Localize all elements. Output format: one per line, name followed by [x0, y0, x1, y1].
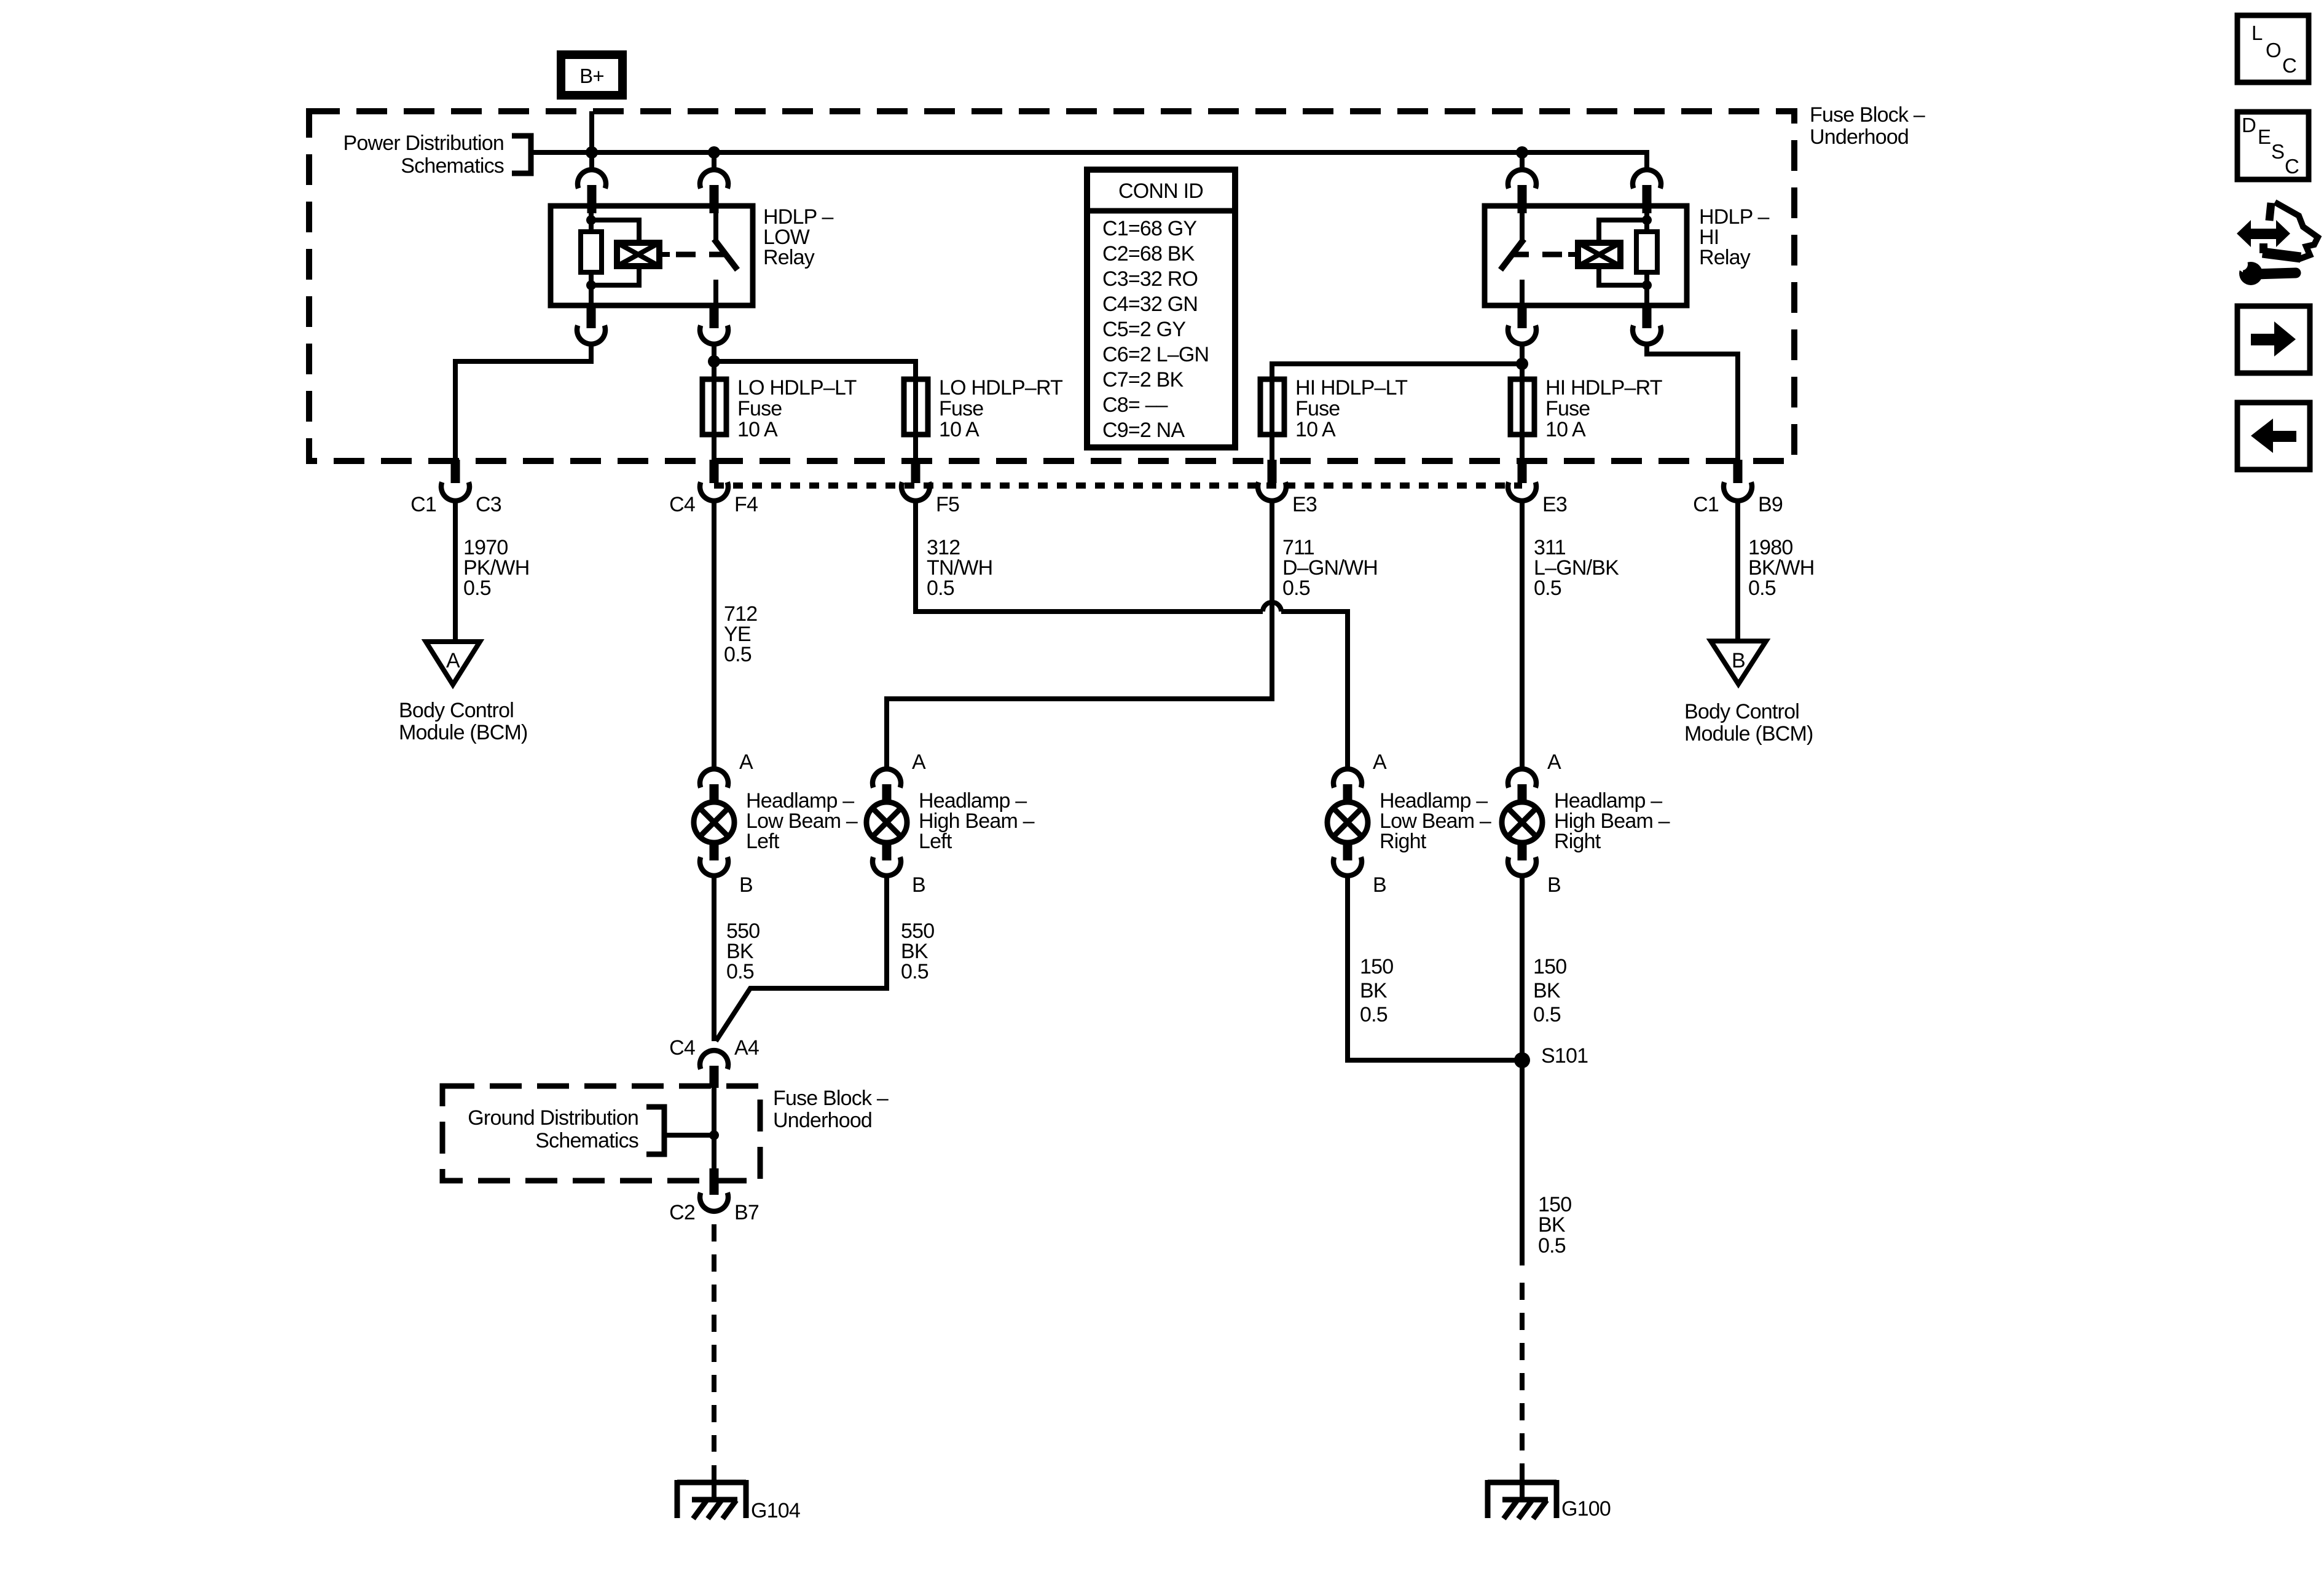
lamp headlamp high beam right — [1502, 789, 1670, 853]
node low switch branch — [708, 355, 720, 368]
svg-text:Underhood: Underhood — [773, 1109, 872, 1132]
svg-text:10 A: 10 A — [939, 418, 979, 441]
svg-text:HI HDLP–RT: HI HDLP–RT — [1545, 376, 1662, 399]
svg-text:150: 150 — [1533, 955, 1566, 978]
connector pin A headlamp low beam right — [1333, 769, 1362, 804]
label wire 150 BK 0.5 (high beam right) — [1533, 955, 1566, 1026]
wire below fuse LO HDLP-RT — [913, 435, 918, 461]
label wire 550 BK 0.5 (low beam left) — [726, 919, 760, 983]
svg-text:C2=68 BK: C2=68 BK — [1102, 242, 1195, 266]
svg-text:0.5: 0.5 — [1538, 1234, 1566, 1257]
wire 550 BK high beam left joining low beam left — [716, 874, 887, 1041]
connector pin B headlamp high beam left — [873, 841, 901, 876]
wire 711 D-GN/WH to high beam left lamp — [887, 499, 1272, 771]
node bus junction at B+ — [586, 146, 598, 159]
connector below low relay coil — [577, 304, 605, 344]
svg-text:Fuse: Fuse — [939, 397, 983, 420]
wire 150 BK high beam right down — [1520, 874, 1525, 1265]
label wire 1970 PK/WH 0.5 — [463, 536, 529, 600]
relay HDLP-HI coil — [1568, 220, 1647, 285]
power symbol B+ — [561, 55, 622, 95]
svg-text:BK: BK — [1533, 979, 1561, 1002]
dotted connector row line — [714, 482, 1522, 489]
svg-text:LO HDLP–LT: LO HDLP–LT — [737, 376, 857, 399]
svg-text:B: B — [1547, 873, 1561, 897]
connector E3 right at fuse block bottom — [1508, 460, 1567, 516]
connector F5 at fuse block bottom — [901, 460, 959, 516]
lamp headlamp low beam left — [694, 789, 858, 853]
svg-text:B: B — [1732, 649, 1745, 672]
label Body Control Module (BCM) left — [399, 699, 528, 744]
label Body Control Module (BCM) right — [1684, 700, 1813, 746]
wire to low relay switch — [712, 152, 716, 171]
svg-text:10 A: 10 A — [737, 418, 778, 441]
svg-text:Fuse: Fuse — [1545, 397, 1590, 420]
relay HDLP-LOW coil — [591, 220, 670, 285]
svg-text:C5=2 GY: C5=2 GY — [1102, 318, 1185, 341]
wire branch to LO HDLP-RT fuse — [714, 361, 916, 379]
node hi relay coil top — [1642, 215, 1652, 225]
wire inside ground distribution block — [712, 1088, 716, 1170]
hidden wire to G100 — [1520, 1283, 1525, 1471]
wire 1980 BK/WH to triangle B — [1735, 499, 1740, 641]
node bus junction at low relay switch — [708, 146, 720, 159]
icon box DESC — [2237, 112, 2309, 179]
svg-text:B7: B7 — [734, 1201, 759, 1224]
CONN ID table — [1087, 170, 1235, 447]
relay HDLP-HI switch — [1501, 206, 1524, 305]
off-page triangle A to BCM — [426, 642, 480, 685]
svg-text:Module (BCM): Module (BCM) — [399, 721, 528, 744]
svg-text:C4: C4 — [669, 493, 695, 516]
svg-text:Schematics: Schematics — [401, 154, 504, 178]
label wire 150 BK 0.5 (below S101) — [1538, 1193, 1571, 1257]
svg-text:0.5: 0.5 — [1748, 577, 1776, 600]
svg-text:E3: E3 — [1542, 493, 1567, 516]
connector pin B headlamp low beam right — [1333, 841, 1362, 876]
fuse HI HDLP-RT 10 A — [1510, 376, 1662, 441]
icon box arrow left — [2237, 403, 2310, 470]
svg-text:Left: Left — [746, 830, 780, 853]
wire 312 TN/WH to low beam right lamp (with crossover hop) — [916, 499, 1348, 771]
svg-text:B: B — [739, 873, 753, 897]
connector E3 left at fuse block bottom — [1258, 460, 1317, 516]
svg-text:B: B — [1373, 873, 1386, 897]
wire below fuse HI HDLP-RT — [1520, 435, 1525, 461]
svg-text:C7=2 BK: C7=2 BK — [1102, 368, 1184, 392]
label wire 712 YE 0.5 — [724, 602, 757, 666]
connector C1/B9 at fuse block bottom — [1693, 460, 1783, 516]
fuse HI HDLP-LT 10 A — [1260, 376, 1407, 441]
svg-text:F4: F4 — [734, 493, 758, 516]
svg-text:C4=32 GN: C4=32 GN — [1102, 293, 1198, 316]
label wire 150 BK 0.5 (low beam right) — [1360, 955, 1393, 1026]
svg-text:S: S — [2271, 140, 2284, 163]
svg-text:C1: C1 — [410, 493, 436, 516]
relay HDLP-HI coil resistor — [1636, 213, 1657, 305]
node hi switch branch — [1516, 358, 1528, 370]
svg-text:A4: A4 — [734, 1036, 759, 1060]
svg-text:BK: BK — [1538, 1213, 1566, 1237]
wire below fuse HI HDLP-LT — [1270, 435, 1274, 461]
ground G100 — [1488, 1480, 1611, 1521]
node ground distribution junction — [709, 1130, 719, 1140]
svg-text:E3: E3 — [1292, 493, 1317, 516]
svg-text:Body Control: Body Control — [1684, 700, 1799, 723]
fuse block underhood dashed outline — [309, 111, 1794, 461]
svg-text:L: L — [2251, 22, 2263, 44]
label Fuse Block Underhood (lower) — [773, 1087, 889, 1132]
svg-text:F5: F5 — [936, 493, 959, 516]
svg-text:Module (BCM): Module (BCM) — [1684, 722, 1813, 746]
connector C4/A4 — [669, 1036, 759, 1088]
svg-text:D: D — [2242, 114, 2256, 136]
svg-text:A: A — [739, 750, 753, 774]
ground G104 — [677, 1480, 800, 1522]
wire 311 L-GN/BK to high beam right lamp — [1520, 499, 1525, 771]
wire stub to G100 — [1520, 1471, 1525, 1500]
connector into fuse block above low relay switch — [700, 170, 728, 213]
lamp headlamp low beam right — [1327, 789, 1491, 853]
node hi relay coil bottom — [1642, 280, 1652, 290]
svg-text:BK: BK — [1360, 979, 1388, 1002]
svg-text:10 A: 10 A — [1545, 418, 1586, 441]
svg-text:C1: C1 — [1693, 493, 1719, 516]
wire B+ drop — [589, 111, 594, 171]
label HDLP-LOW Relay — [763, 205, 834, 269]
label wire 1980 BK/WH 0.5 — [1748, 536, 1814, 600]
svg-text:S101: S101 — [1541, 1044, 1588, 1068]
svg-text:Fuse Block –: Fuse Block – — [1810, 103, 1925, 127]
svg-text:C8= ––: C8= –– — [1102, 393, 1168, 417]
svg-text:Ground Distribution: Ground Distribution — [468, 1106, 638, 1130]
svg-text:Relay: Relay — [1699, 246, 1751, 269]
svg-text:0.5: 0.5 — [1282, 577, 1310, 600]
relay HDLP-LOW coil resistor — [581, 213, 602, 305]
relay HDLP-LOW switch — [714, 206, 737, 305]
connector C2/B7 — [669, 1168, 759, 1224]
label Power Distribution Schematics — [343, 132, 504, 178]
wire below fuse LO HDLP-LT — [712, 435, 716, 461]
connector pin A headlamp high beam left — [873, 769, 901, 804]
icon vehicle view with wrench — [2230, 202, 2318, 285]
connector below low relay switch — [700, 304, 728, 344]
svg-text:C: C — [2282, 54, 2296, 77]
svg-text:0.5: 0.5 — [927, 577, 954, 600]
relay HDLP-HI box — [1485, 206, 1687, 305]
wire 150 BK low beam right to S101 — [1348, 874, 1518, 1060]
relay HDLP-LOW box — [551, 206, 753, 305]
svg-text:C2: C2 — [669, 1201, 695, 1224]
svg-text:0.5: 0.5 — [463, 577, 491, 600]
svg-text:CONN ID: CONN ID — [1118, 179, 1203, 203]
svg-text:C: C — [2285, 155, 2299, 178]
wire low relay coil to C1/C3 connector — [455, 342, 591, 461]
fuse LO HDLP-LT 10 A — [702, 376, 857, 441]
bracket to ground distribution — [646, 1107, 714, 1154]
svg-text:Schematics: Schematics — [535, 1129, 638, 1152]
svg-text:A: A — [1547, 750, 1561, 774]
label wire 550 BK 0.5 (high beam left) — [901, 919, 934, 983]
fuse LO HDLP-RT 10 A — [904, 376, 1062, 441]
svg-text:C3=32 RO: C3=32 RO — [1102, 267, 1198, 291]
connector C1/C3 at fuse block bottom — [410, 460, 501, 516]
bracket to power distribution bus — [512, 136, 531, 173]
connector into fuse block above hi relay coil — [1633, 170, 1661, 213]
label wire 312 TN/WH 0.5 — [927, 536, 992, 600]
wire low relay switch down — [712, 342, 716, 379]
svg-text:Power Distribution: Power Distribution — [343, 132, 504, 155]
svg-text:0.5: 0.5 — [1360, 1003, 1388, 1026]
svg-text:B: B — [912, 873, 925, 897]
svg-text:G104: G104 — [751, 1499, 800, 1522]
label wire 311 L-GN/BK 0.5 — [1534, 536, 1619, 600]
lamp headlamp high beam left — [866, 789, 1035, 853]
icon box arrow right — [2237, 306, 2310, 373]
svg-text:Right: Right — [1380, 830, 1427, 853]
connector into fuse block above hi relay switch — [1508, 170, 1536, 213]
node low relay coil bottom — [586, 280, 596, 290]
svg-text:0.5: 0.5 — [1534, 577, 1561, 600]
label wire 711 D-GN/WH 0.5 — [1282, 536, 1378, 600]
svg-text:E: E — [2258, 125, 2271, 148]
connector into fuse block above low relay coil — [578, 170, 606, 213]
hidden wire to G104 — [712, 1224, 716, 1452]
svg-text:0.5: 0.5 — [726, 960, 754, 983]
connector pin A headlamp high beam right — [1508, 769, 1536, 804]
wire stub to G104 — [712, 1465, 716, 1500]
connector pin B headlamp high beam right — [1508, 841, 1536, 876]
svg-text:C4: C4 — [669, 1036, 695, 1060]
svg-text:0.5: 0.5 — [901, 960, 928, 983]
connector C4/F4 at fuse block bottom — [669, 460, 758, 516]
svg-text:Relay: Relay — [763, 246, 815, 269]
connector below hi relay switch — [1508, 304, 1536, 344]
svg-text:C9=2 NA: C9=2 NA — [1102, 419, 1185, 442]
wire to hi relay switch — [1520, 152, 1525, 171]
relay HDLP-HI actuator dashed link — [1513, 252, 1562, 258]
label Fuse Block Underhood (top right) — [1810, 103, 1925, 149]
wire 1970 PK/WH to triangle A — [453, 499, 458, 642]
wire hi relay switch down — [1520, 342, 1525, 379]
relay HDLP-LOW actuator dashed link — [676, 252, 725, 258]
svg-text:LO HDLP–RT: LO HDLP–RT — [939, 376, 1062, 399]
splice S101 — [1514, 1044, 1588, 1068]
svg-text:0.5: 0.5 — [1533, 1003, 1561, 1026]
wire branch to HI HDLP-LT fuse — [1272, 364, 1522, 379]
connector pin A headlamp low beam left — [700, 769, 728, 804]
wire hi relay coil to C1/B9 connector — [1647, 342, 1738, 461]
svg-text:G100: G100 — [1561, 1497, 1611, 1521]
svg-text:C1=68 GY: C1=68 GY — [1102, 217, 1196, 240]
svg-text:Fuse: Fuse — [1295, 397, 1340, 420]
svg-text:0.5: 0.5 — [724, 643, 752, 666]
svg-text:Underhood: Underhood — [1810, 125, 1909, 149]
svg-text:Fuse: Fuse — [737, 397, 782, 420]
svg-text:A: A — [446, 649, 460, 672]
label HDLP-HI Relay — [1699, 205, 1770, 269]
wire B+ bus — [531, 152, 1647, 171]
svg-text:B+: B+ — [579, 65, 604, 87]
svg-text:150: 150 — [1360, 955, 1393, 978]
svg-text:Body Control: Body Control — [399, 699, 514, 722]
node low relay coil top — [586, 215, 596, 225]
node bus junction at hi relay switch — [1516, 146, 1528, 159]
svg-text:A: A — [1373, 750, 1387, 774]
connector pin B headlamp low beam left — [700, 841, 728, 876]
svg-text:O: O — [2266, 39, 2281, 61]
label Ground Distribution Schematics — [468, 1106, 638, 1152]
connector below hi relay coil — [1633, 304, 1661, 344]
svg-text:Right: Right — [1554, 830, 1601, 853]
svg-text:Left: Left — [919, 830, 952, 853]
wire 712 YE to low beam left lamp — [712, 499, 716, 771]
svg-text:A: A — [912, 750, 926, 774]
svg-text:Fuse Block –: Fuse Block – — [773, 1087, 889, 1110]
off-page triangle B to BCM — [1711, 641, 1766, 684]
icon box LOC — [2237, 15, 2309, 82]
svg-text:C6=2 L–GN: C6=2 L–GN — [1102, 343, 1209, 366]
wire 550 BK low beam left to C4/A4 — [712, 874, 716, 1041]
svg-text:B9: B9 — [1758, 493, 1783, 516]
svg-text:HI HDLP–LT: HI HDLP–LT — [1295, 376, 1407, 399]
svg-text:10 A: 10 A — [1295, 418, 1336, 441]
svg-text:C3: C3 — [476, 493, 501, 516]
fuse block underhood (ground distribution) dashed box — [442, 1086, 760, 1181]
